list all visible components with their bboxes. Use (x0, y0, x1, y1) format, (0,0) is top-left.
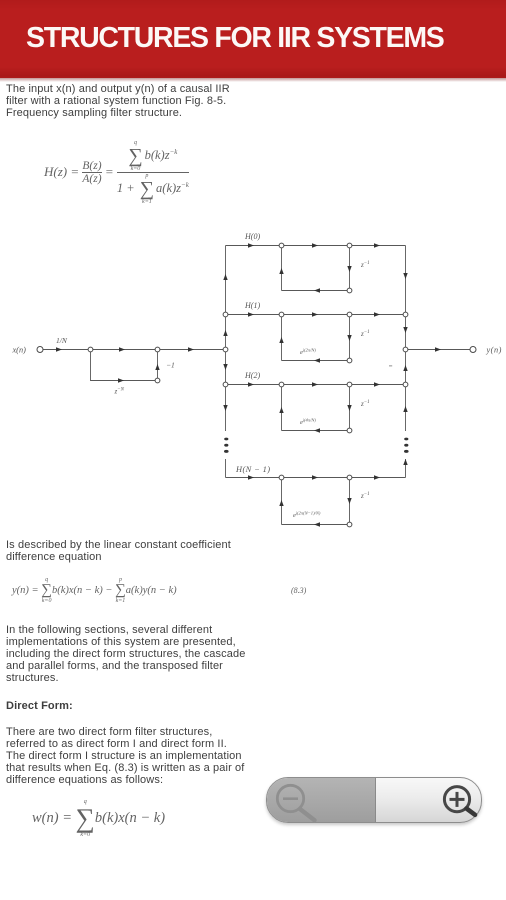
arrowheads left bus (up above junction, down below) (223, 274, 227, 280)
wire resonator loop H(0) (282, 246, 350, 291)
wire input line x(n) to left bus (43, 349, 226, 351)
heading (6, 700, 73, 712)
DIAGRAM: frequency sampling filter signal flow graph (0, 222, 506, 552)
node resonator H(2) top-left (279, 382, 284, 387)
svg-text:y(n): y(n) (486, 346, 502, 355)
paragraph 3 (6, 624, 245, 684)
svg-text:H(2): H(2) (244, 371, 260, 380)
svg-text:z−1: z−1 (360, 492, 370, 500)
node resonator H(2) top-right (347, 382, 352, 387)
equation w(n) (32, 798, 165, 838)
magnifier minus icon (277, 785, 314, 820)
zoom-out (dark) half (267, 778, 376, 822)
node resonator H(N-1) bottom-right (347, 522, 352, 527)
node comb output (155, 347, 160, 352)
wire left bus lower (225, 459, 227, 478)
node terminal y(n) (470, 347, 476, 353)
node resonator H(0) bottom-right (347, 288, 352, 293)
equation y(n) (12, 574, 177, 606)
node resonator H(1) top-left (279, 312, 284, 317)
arrowheads branch H(2) (248, 382, 254, 386)
node resonator H(2) bottom-right (347, 428, 352, 433)
arrowheads branch H(N-1) (248, 475, 254, 479)
node left bus input junction (223, 347, 228, 352)
wire comb feedforward delay path (down, bottom, up) (91, 350, 158, 381)
arrowhead output line (435, 347, 441, 351)
magnifier plus icon (444, 787, 475, 815)
svg-text:z−1: z−1 (360, 261, 370, 269)
svg-text:ej(2π(N−1)/N): ej(2π(N−1)/N) (293, 511, 321, 520)
node resonator H(N-1) top-right (347, 475, 352, 480)
speck artifact (389, 365, 392, 366)
ellipsis dots right bus (404, 438, 408, 441)
paragraph 2 (6, 539, 231, 563)
wire right bus upper (405, 246, 407, 432)
svg-text:z−1: z−1 (360, 400, 370, 408)
svg-text:z−1: z−1 (360, 330, 370, 338)
wire resonator loop H(1) (282, 315, 350, 361)
node resonator H(N-1) top-left (279, 475, 284, 480)
node right bus H(2) junction (403, 382, 408, 387)
wire resonator loop H(2) (282, 385, 350, 431)
wire right bus lower (405, 459, 407, 478)
svg-text:H(1): H(1) (244, 301, 260, 310)
node left bus H(2) junction (223, 382, 228, 387)
svg-text:−1: −1 (166, 361, 175, 370)
node resonator H(1) bottom-right (347, 358, 352, 363)
paragraph 1 (6, 83, 230, 119)
svg-text:ej(2π/N): ej(2π/N) (300, 348, 316, 357)
paragraph 4 (6, 726, 244, 786)
zoom control pill (266, 777, 482, 823)
arrowhead comb feedback (up) (155, 364, 159, 370)
wire branch line H(0) (226, 245, 406, 247)
wire branch line H(1) (226, 314, 406, 316)
wire resonator loop H(N-1) (282, 478, 350, 525)
wire branch line H(N-1) (226, 477, 406, 479)
wire left bus upper (225, 246, 227, 432)
arrowheads branch H(1) (248, 312, 254, 316)
arrowheads right bus (down above junction, up below) (403, 273, 407, 279)
node right bus H(1) junction (403, 312, 408, 317)
node resonator H(0) top-right (347, 243, 352, 248)
ellipsis dots left bus (224, 438, 228, 441)
svg-text:H(0): H(0) (244, 232, 260, 241)
node comb delay output (155, 378, 160, 383)
wire output line to y(n) (406, 349, 471, 351)
svg-text:H(N − 1): H(N − 1) (235, 465, 270, 474)
node comb input (88, 347, 93, 352)
node left bus H(1) junction (223, 312, 228, 317)
svg-text:z−N: z−N (114, 388, 125, 396)
arrowheads branch H(0) (248, 243, 254, 247)
wire branch line H(2) (226, 384, 406, 386)
node resonator H(1) top-right (347, 312, 352, 317)
svg-text:1/N: 1/N (56, 336, 68, 345)
header bar (0, 0, 506, 78)
node terminal x(n) (37, 347, 43, 353)
svg-text:ej(4π/N): ej(4π/N) (300, 418, 316, 427)
node resonator H(0) top-left (279, 243, 284, 248)
arrowhead comb bottom (right) (118, 378, 124, 382)
arrowheads input line (56, 347, 62, 351)
equation H(z) (44, 135, 189, 209)
node right bus output junction (403, 347, 408, 352)
svg-text:x(n): x(n) (12, 346, 27, 355)
